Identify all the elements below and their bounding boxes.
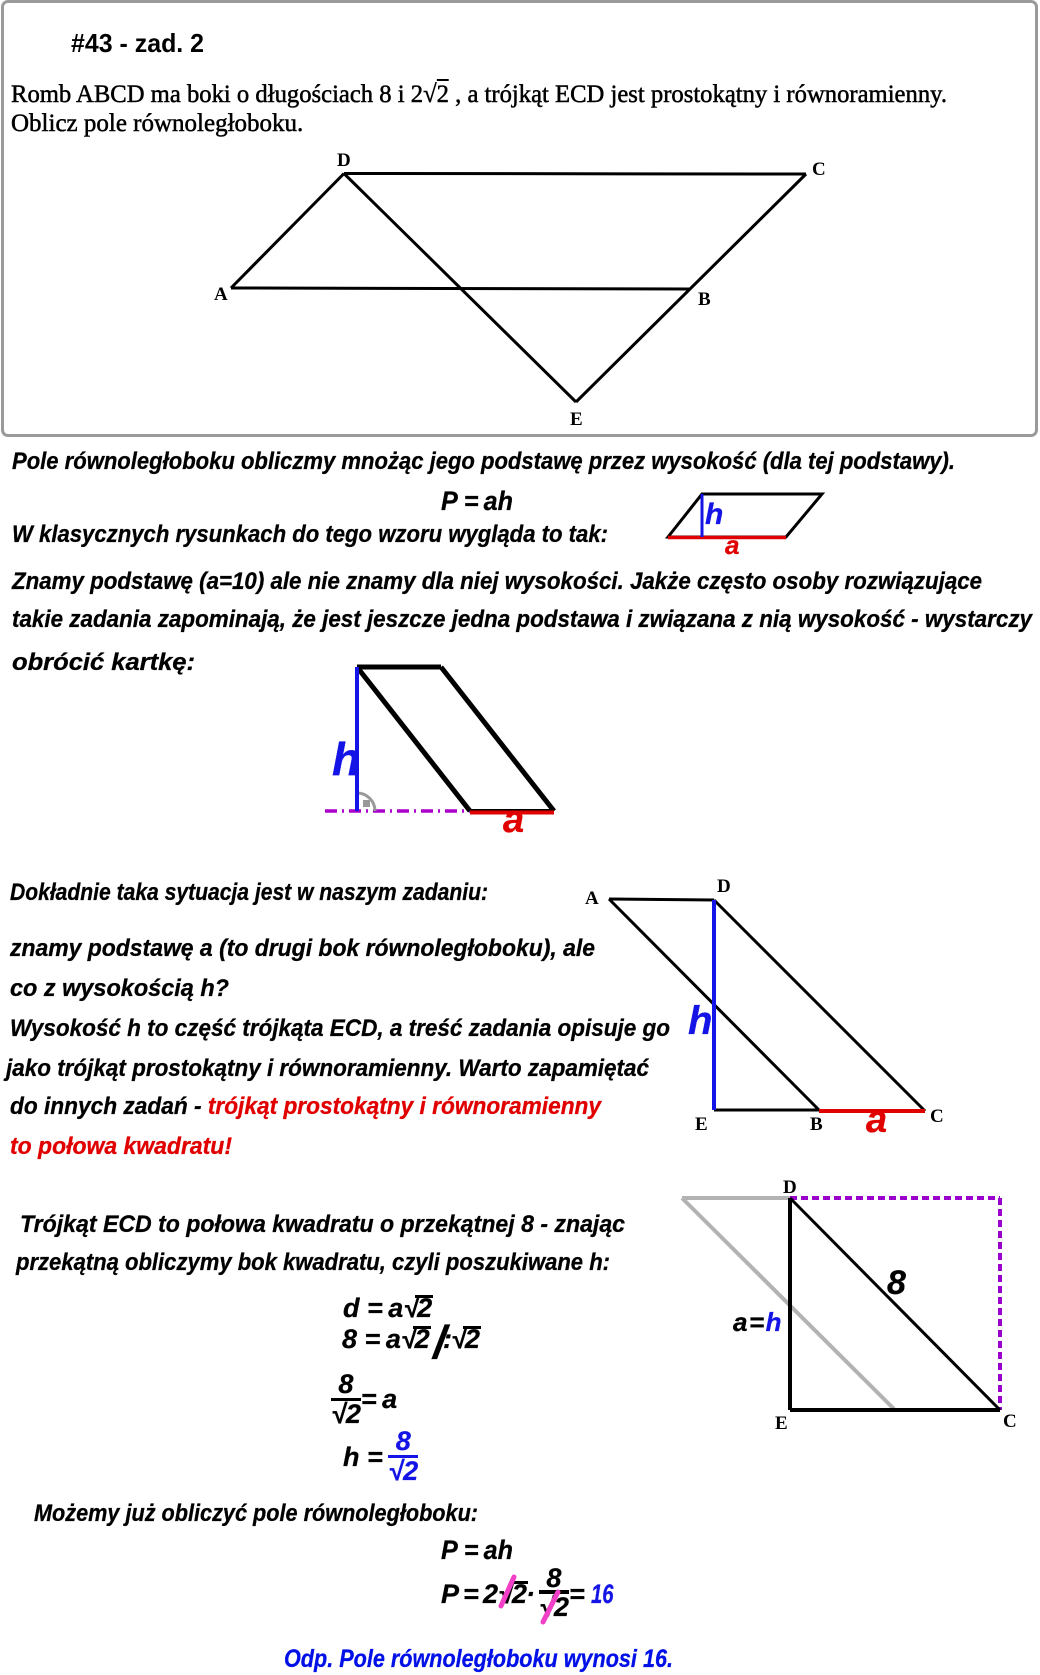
text line hw11 — [10, 1095, 601, 1119]
figure: rotated parallelogram with height h, base a, right angle — [310, 650, 590, 850]
text line hw13 — [20, 1213, 625, 1237]
node E — [570, 410, 583, 429]
wire side EC — [790, 1408, 1000, 1412]
label 8 on diagonal — [887, 1266, 906, 1300]
equation P=ah (1) — [441, 488, 513, 515]
right-angle dot (gray) — [363, 800, 370, 807]
node B — [698, 290, 711, 309]
diagram 2: rotated parallelogram ABCD with E — [580, 870, 960, 1150]
wire base a (red) — [668, 536, 786, 540]
wire parallelogram bottom edge — [470, 809, 554, 811]
wire purple dashed right — [998, 1198, 1002, 1410]
equation 8 = a sqrt2 /:sqrt2 — [342, 1326, 481, 1355]
node D — [783, 1178, 797, 1197]
node A — [214, 285, 228, 304]
problem statement box — [1, 0, 1038, 437]
wire side AD — [231, 174, 344, 289]
text line hw5 — [12, 651, 195, 675]
equation 8/sqrt2 = a — [331, 1374, 397, 1428]
text line hw15 — [34, 1502, 478, 1526]
text line hw6 — [10, 881, 488, 905]
node E — [775, 1414, 788, 1433]
wire side AD — [609, 899, 714, 900]
node A — [585, 889, 599, 908]
text line hw8 — [10, 977, 229, 1001]
text line hw12 — [10, 1135, 232, 1159]
right-angle arc (gray) — [357, 793, 375, 811]
wire parallelogram outline — [668, 494, 822, 537]
label a=h — [733, 1309, 783, 1335]
label a (red) — [725, 532, 739, 558]
diagram 3: half-square triangle DEC with dashed square and gray ghost — [660, 1180, 1040, 1430]
wire side DE — [788, 1198, 792, 1410]
wire parallelogram top edge — [357, 665, 441, 670]
wire side AB — [609, 899, 819, 1110]
wire purple dashed top — [790, 1196, 1000, 1200]
wire side DC — [344, 172, 806, 176]
node D — [337, 151, 351, 170]
wire height h (blue) — [355, 667, 359, 811]
node C — [1003, 1412, 1017, 1431]
wire height DE (blue) — [712, 900, 716, 1110]
node C — [930, 1107, 944, 1126]
label a (red) — [866, 1101, 887, 1139]
text line hw7 — [10, 937, 595, 961]
text line hw2 — [12, 523, 608, 547]
wire segment DE — [344, 174, 576, 403]
equation d = a sqrt2 — [343, 1295, 433, 1322]
wire gray ghost top edge — [682, 1196, 790, 1200]
node C — [812, 160, 826, 179]
text line hw4 — [12, 608, 1032, 632]
equation h = 8/sqrt2 (blue fraction) — [343, 1431, 418, 1485]
wire parallelogram left slant — [357, 667, 470, 811]
pink strike through denominator sqrt2 — [530, 1585, 610, 1645]
node B — [810, 1115, 823, 1134]
wire segment EB — [714, 1109, 819, 1112]
wire side AB — [231, 288, 690, 289]
text line hw16 — [284, 1647, 673, 1672]
text line hw1 — [12, 450, 955, 474]
figure: small parallelogram with h and a — [640, 480, 860, 570]
wire height h (blue) — [701, 494, 704, 537]
text line hw14 — [16, 1251, 610, 1275]
pink strike through first sqrt2 — [490, 1565, 570, 1635]
label h (blue) — [332, 736, 360, 782]
wire parallelogram right slant — [441, 667, 554, 811]
label a (red) — [503, 801, 524, 839]
node D — [717, 877, 731, 896]
node E — [695, 1115, 708, 1134]
text line hw9 — [10, 1017, 670, 1041]
wire purple dash-dot baseline — [325, 809, 470, 813]
text line hw10 — [6, 1057, 649, 1081]
wire side DC — [714, 900, 925, 1111]
wire diagonal DC — [790, 1198, 1000, 1410]
diagram 1: rhombus ABCD with triangle ECD — [0, 0, 1040, 435]
label h (blue) — [688, 1001, 712, 1041]
statement line 2 — [11, 111, 303, 136]
wire segment CE through B — [576, 174, 806, 402]
wire gray ghost slant — [682, 1198, 894, 1409]
equation P=ah (2) — [441, 1537, 513, 1564]
title — [71, 30, 204, 56]
wire base a (red) — [470, 811, 554, 815]
label h (blue) — [705, 500, 723, 530]
text line hw3 — [12, 570, 982, 594]
equation P = 2sqrt2 * 8/sqrt2 = 16 — [0, 0, 1, 1]
statement line 1 — [11, 82, 947, 107]
wire segment BC base a (red) — [819, 1109, 925, 1113]
